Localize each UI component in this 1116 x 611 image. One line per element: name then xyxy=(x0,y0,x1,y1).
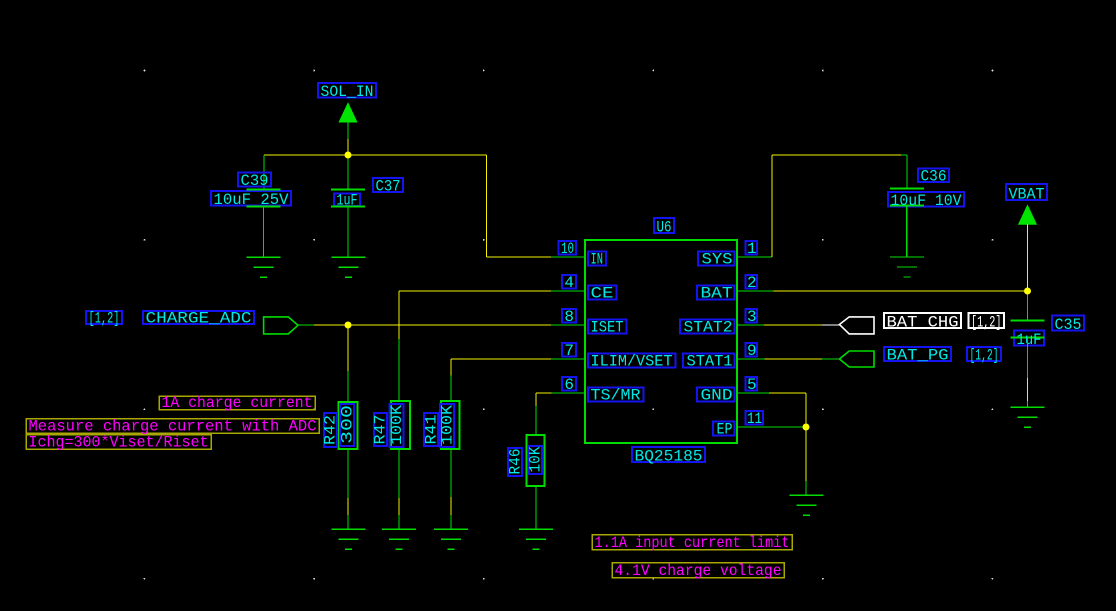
wire SYS top horizontal yellow xyxy=(772,154,901,156)
wire R47 to ground green xyxy=(398,449,400,498)
ground under R47 xyxy=(382,529,416,549)
wire C35 green upper xyxy=(1027,338,1029,379)
wire C39 to ground xyxy=(263,207,265,258)
svg-text:100K: 100K xyxy=(388,405,406,445)
wire EP green xyxy=(737,426,806,428)
svg-text:GND: GND xyxy=(701,387,733,405)
svg-text:CHARGE_ADC: CHARGE_ADC xyxy=(146,310,252,328)
pin 10 IN stub xyxy=(551,256,585,258)
svg-text:10uF 10V: 10uF 10V xyxy=(891,192,962,210)
wire VBAT vertical yellow xyxy=(1027,224,1029,291)
wire R42 to ground green xyxy=(347,449,349,498)
svg-text:1.1A input current limit: 1.1A input current limit xyxy=(595,534,790,552)
pin name TS/MR xyxy=(588,388,644,402)
pin 8 ISET stub xyxy=(551,324,585,326)
pin 6 TS/MR stub xyxy=(551,392,585,394)
svg-text:10K: 10K xyxy=(527,446,545,472)
pin 11 EP stub xyxy=(737,426,770,428)
ground under C37 xyxy=(331,257,365,277)
wire TS/MR vertical yellow xyxy=(535,393,537,406)
label C36 xyxy=(918,169,949,183)
pin number 8 xyxy=(562,309,576,322)
capacitor C36 xyxy=(890,189,924,206)
wire to R47 green xyxy=(398,339,400,401)
pin name GND xyxy=(697,388,735,402)
label C39 xyxy=(238,173,271,187)
svg-text:EP: EP xyxy=(717,421,733,439)
svg-text:BAT_PG: BAT_PG xyxy=(887,347,949,365)
svg-text:9: 9 xyxy=(747,342,757,360)
note 1.1A input current limit xyxy=(592,535,792,550)
label R47 xyxy=(374,413,387,446)
svg-text:STAT1: STAT1 xyxy=(687,353,733,371)
power label SOL_IN xyxy=(318,83,376,98)
wire SYS top horizontal green end xyxy=(901,154,907,156)
wire to R42 green xyxy=(347,371,349,402)
resistor R47 body xyxy=(391,401,410,449)
pin number 3 xyxy=(746,309,758,322)
svg-text:4.1V charge voltage: 4.1V charge voltage xyxy=(615,562,782,580)
label R42 xyxy=(324,413,337,447)
svg-text:1: 1 xyxy=(747,240,757,258)
wire to R46 green xyxy=(535,406,537,435)
pin name IN xyxy=(588,252,606,266)
value 1uF of C37 xyxy=(334,194,360,207)
wire SOL_IN vertical yellow xyxy=(347,139,349,155)
wire SYS vertical yellow xyxy=(771,155,773,257)
wire R42 to ground yellow xyxy=(347,498,349,515)
pin 2 BAT stub xyxy=(737,290,770,292)
sheet ref [1,2] of BAT_CHG xyxy=(969,313,1005,328)
svg-text:4: 4 xyxy=(564,274,574,292)
value 10uF 25V xyxy=(211,191,291,206)
ground under C36 xyxy=(890,257,924,277)
svg-text:5: 5 xyxy=(747,376,757,394)
wire R41 to ground green xyxy=(450,449,452,497)
ground under C39 xyxy=(246,257,280,277)
pin number 5 xyxy=(746,377,758,390)
pin number 2 xyxy=(746,275,758,288)
svg-text:R47: R47 xyxy=(372,415,390,445)
junction BAT node xyxy=(1024,288,1031,295)
wire C36 to ground xyxy=(906,206,908,258)
pin name BAT xyxy=(697,286,735,300)
hierarchical label BAT_CHG text xyxy=(884,313,961,328)
svg-text:1A charge current: 1A charge current xyxy=(162,394,313,412)
wire C35 yellow segment xyxy=(1027,378,1029,401)
svg-text:[1,2]: [1,2] xyxy=(971,314,1002,332)
wire TS/MR to R46 horizontal xyxy=(536,392,552,394)
resistor R46 body xyxy=(527,435,545,486)
pin number 11 xyxy=(746,411,764,424)
svg-text:VBAT: VBAT xyxy=(1009,186,1045,204)
pin name CE xyxy=(588,286,617,300)
wire BAT green xyxy=(737,290,774,292)
value BQ25185 xyxy=(632,447,705,462)
svg-text:1uF: 1uF xyxy=(337,192,358,210)
power symbol VBAT arrow xyxy=(1019,206,1037,225)
capacitor C37 xyxy=(331,190,365,207)
wire junction to C35 xyxy=(1027,291,1029,321)
wire CE to R47 horizontal xyxy=(399,290,551,292)
wire STAT1 yellow xyxy=(765,358,823,360)
wire EP ground stub xyxy=(805,481,807,495)
wire R41 to ground yellow xyxy=(450,497,452,515)
wire SOL_IN vertical green xyxy=(347,122,349,140)
wire ILIM vertical yellow xyxy=(450,359,452,376)
wire to R41 green xyxy=(450,376,452,402)
wire STAT2 green xyxy=(737,324,764,326)
ground under C35 xyxy=(1011,407,1045,427)
svg-text:10uF 25V: 10uF 25V xyxy=(214,191,289,209)
svg-text:TS/MR: TS/MR xyxy=(591,387,641,405)
svg-text:10: 10 xyxy=(561,240,574,258)
pin number 7 xyxy=(562,343,576,356)
svg-text:ISET: ISET xyxy=(591,319,624,337)
value 100K (R47) xyxy=(390,404,404,447)
hierarchical label BAT_CHG shape (white highlighted) xyxy=(839,317,874,334)
wire to C39 xyxy=(263,155,265,189)
wire GND pin5 yellow xyxy=(769,392,806,394)
wire BAT yellow xyxy=(774,290,1028,292)
pin number 1 xyxy=(746,241,758,254)
pin 3 STAT2 stub xyxy=(737,324,770,326)
pin name EP xyxy=(713,422,735,436)
wire CHARGE_ADC green xyxy=(298,324,314,326)
svg-text:R46: R46 xyxy=(507,449,525,475)
wire STAT2 yellow xyxy=(764,324,822,326)
svg-text:11: 11 xyxy=(747,410,762,428)
svg-text:7: 7 xyxy=(564,342,574,360)
svg-text:CE: CE xyxy=(591,285,614,303)
pin 4 CE stub xyxy=(551,290,585,292)
svg-text:C35: C35 xyxy=(1055,316,1082,334)
pin 5 GND stub xyxy=(737,392,770,394)
resistor R41 body xyxy=(441,401,460,449)
pin 7 ILIM/VSET stub xyxy=(551,358,585,360)
pin 9 STAT1 stub xyxy=(737,358,770,360)
wire R47 ground stub xyxy=(398,515,400,529)
pin number 9 xyxy=(746,343,758,356)
wire GND pin5 vertical yellow xyxy=(805,393,807,427)
svg-text:ILIM/VSET: ILIM/VSET xyxy=(591,353,673,371)
power symbol SOL_IN arrow xyxy=(339,103,357,122)
value 10K xyxy=(529,446,542,474)
note 1A charge current xyxy=(159,396,315,410)
power label VBAT xyxy=(1006,184,1047,200)
ground under R41 xyxy=(434,529,468,549)
svg-text:100K: 100K xyxy=(439,405,457,445)
svg-text:STAT2: STAT2 xyxy=(684,319,733,337)
ground under EP xyxy=(789,495,823,515)
wire C37 to ground xyxy=(347,207,349,258)
op-amp U6 body (IC BQ25185) xyxy=(585,240,737,443)
label U6 xyxy=(654,218,674,233)
wire EP to ground yellow xyxy=(805,427,807,481)
note 4.1V charge voltage xyxy=(612,563,784,578)
ground under R46 xyxy=(519,529,553,549)
junction SOL_IN node xyxy=(345,152,352,159)
svg-text:[1,2]: [1,2] xyxy=(970,347,999,365)
svg-text:SYS: SYS xyxy=(702,251,733,269)
value 300 xyxy=(340,404,354,446)
value 1uF of C35 xyxy=(1014,331,1044,346)
svg-text:300: 300 xyxy=(339,405,357,444)
wire R46 to ground xyxy=(535,486,537,529)
pin number 6 xyxy=(562,377,576,390)
resistor R42 body xyxy=(339,402,358,449)
pin name SYS xyxy=(698,252,735,266)
label R41 xyxy=(424,413,438,446)
svg-text:2: 2 xyxy=(747,274,757,292)
label R46 xyxy=(508,448,522,476)
hierarchical label CHARGE_ADC shape xyxy=(264,317,298,334)
svg-text:BAT: BAT xyxy=(701,285,733,303)
svg-text:3: 3 xyxy=(747,308,757,326)
wire R42 ground stub xyxy=(347,515,349,529)
wire IN net vertical xyxy=(486,155,488,257)
wire GND pin5 green xyxy=(737,392,769,394)
label C35 xyxy=(1052,316,1084,331)
svg-text:IN: IN xyxy=(591,251,604,269)
ground under R42 xyxy=(332,529,366,549)
svg-text:U6: U6 xyxy=(657,219,672,237)
svg-text:C39: C39 xyxy=(241,172,269,190)
svg-text:SOL_IN: SOL_IN xyxy=(321,83,374,101)
hierarchical label BAT_PG shape xyxy=(839,351,874,367)
value 10uF 10V xyxy=(888,192,964,207)
wire STAT2 white segment xyxy=(822,324,839,326)
wire down to C36 xyxy=(906,155,908,188)
svg-text:C36: C36 xyxy=(921,168,947,186)
svg-text:BQ25185: BQ25185 xyxy=(635,448,703,466)
svg-text:Ichg=300*Viset/Riset: Ichg=300*Viset/Riset xyxy=(29,434,209,452)
sheet ref [1,2] of CHARGE_ADC xyxy=(86,311,122,324)
wire top horizontal right of junction xyxy=(348,154,487,156)
pin number 10 xyxy=(559,241,577,254)
hierarchical label BAT_PG text xyxy=(884,347,951,361)
wire IN net horizontal to pin 10 xyxy=(487,256,552,258)
wire junction down to R42 yellow xyxy=(347,325,349,371)
note Measure charge current with ADC xyxy=(26,419,319,434)
pin name STAT2 xyxy=(680,320,735,334)
pin name STAT1 xyxy=(683,354,735,368)
hierarchical label CHARGE_ADC text xyxy=(143,311,254,324)
capacitor C39 xyxy=(247,190,281,207)
junction EP node xyxy=(803,424,810,431)
sheet ref [1,2] of BAT_PG xyxy=(967,347,1001,361)
note Ichg=300*Viset/Riset xyxy=(26,435,211,450)
svg-text:BAT_CHG: BAT_CHG xyxy=(887,314,959,332)
wire SYS green xyxy=(737,256,772,258)
wire R47 to ground yellow xyxy=(398,498,400,515)
pin number 4 xyxy=(562,275,576,288)
wire junction to C37 xyxy=(347,155,349,189)
wire C35 ground stub xyxy=(1027,401,1029,407)
wire top horizontal left of junction xyxy=(264,154,348,156)
wire CHARGE_ADC / ISET yellow xyxy=(314,324,551,326)
svg-text:6: 6 xyxy=(564,376,574,394)
wire STAT1 green end xyxy=(822,358,839,360)
label C37 xyxy=(373,178,403,192)
wire ILIM/VSET to R41 horizontal xyxy=(451,358,551,360)
svg-text:R42: R42 xyxy=(322,415,340,445)
svg-text:[1,2]: [1,2] xyxy=(89,310,120,328)
wire CE vertical yellow xyxy=(398,291,400,339)
pin name ILIM/VSET xyxy=(588,354,676,368)
junction CHARGE_ADC node xyxy=(345,322,352,329)
pin 1 SYS stub xyxy=(737,256,770,258)
value 100K (R41) xyxy=(440,404,454,447)
svg-text:1uF: 1uF xyxy=(1017,331,1042,349)
pin name ISET xyxy=(588,320,627,334)
wire STAT1 green xyxy=(737,358,765,360)
capacitor C35 xyxy=(1011,321,1045,338)
svg-text:8: 8 xyxy=(564,308,574,326)
svg-text:C37: C37 xyxy=(376,178,401,196)
wire R41 ground stub xyxy=(450,515,452,529)
